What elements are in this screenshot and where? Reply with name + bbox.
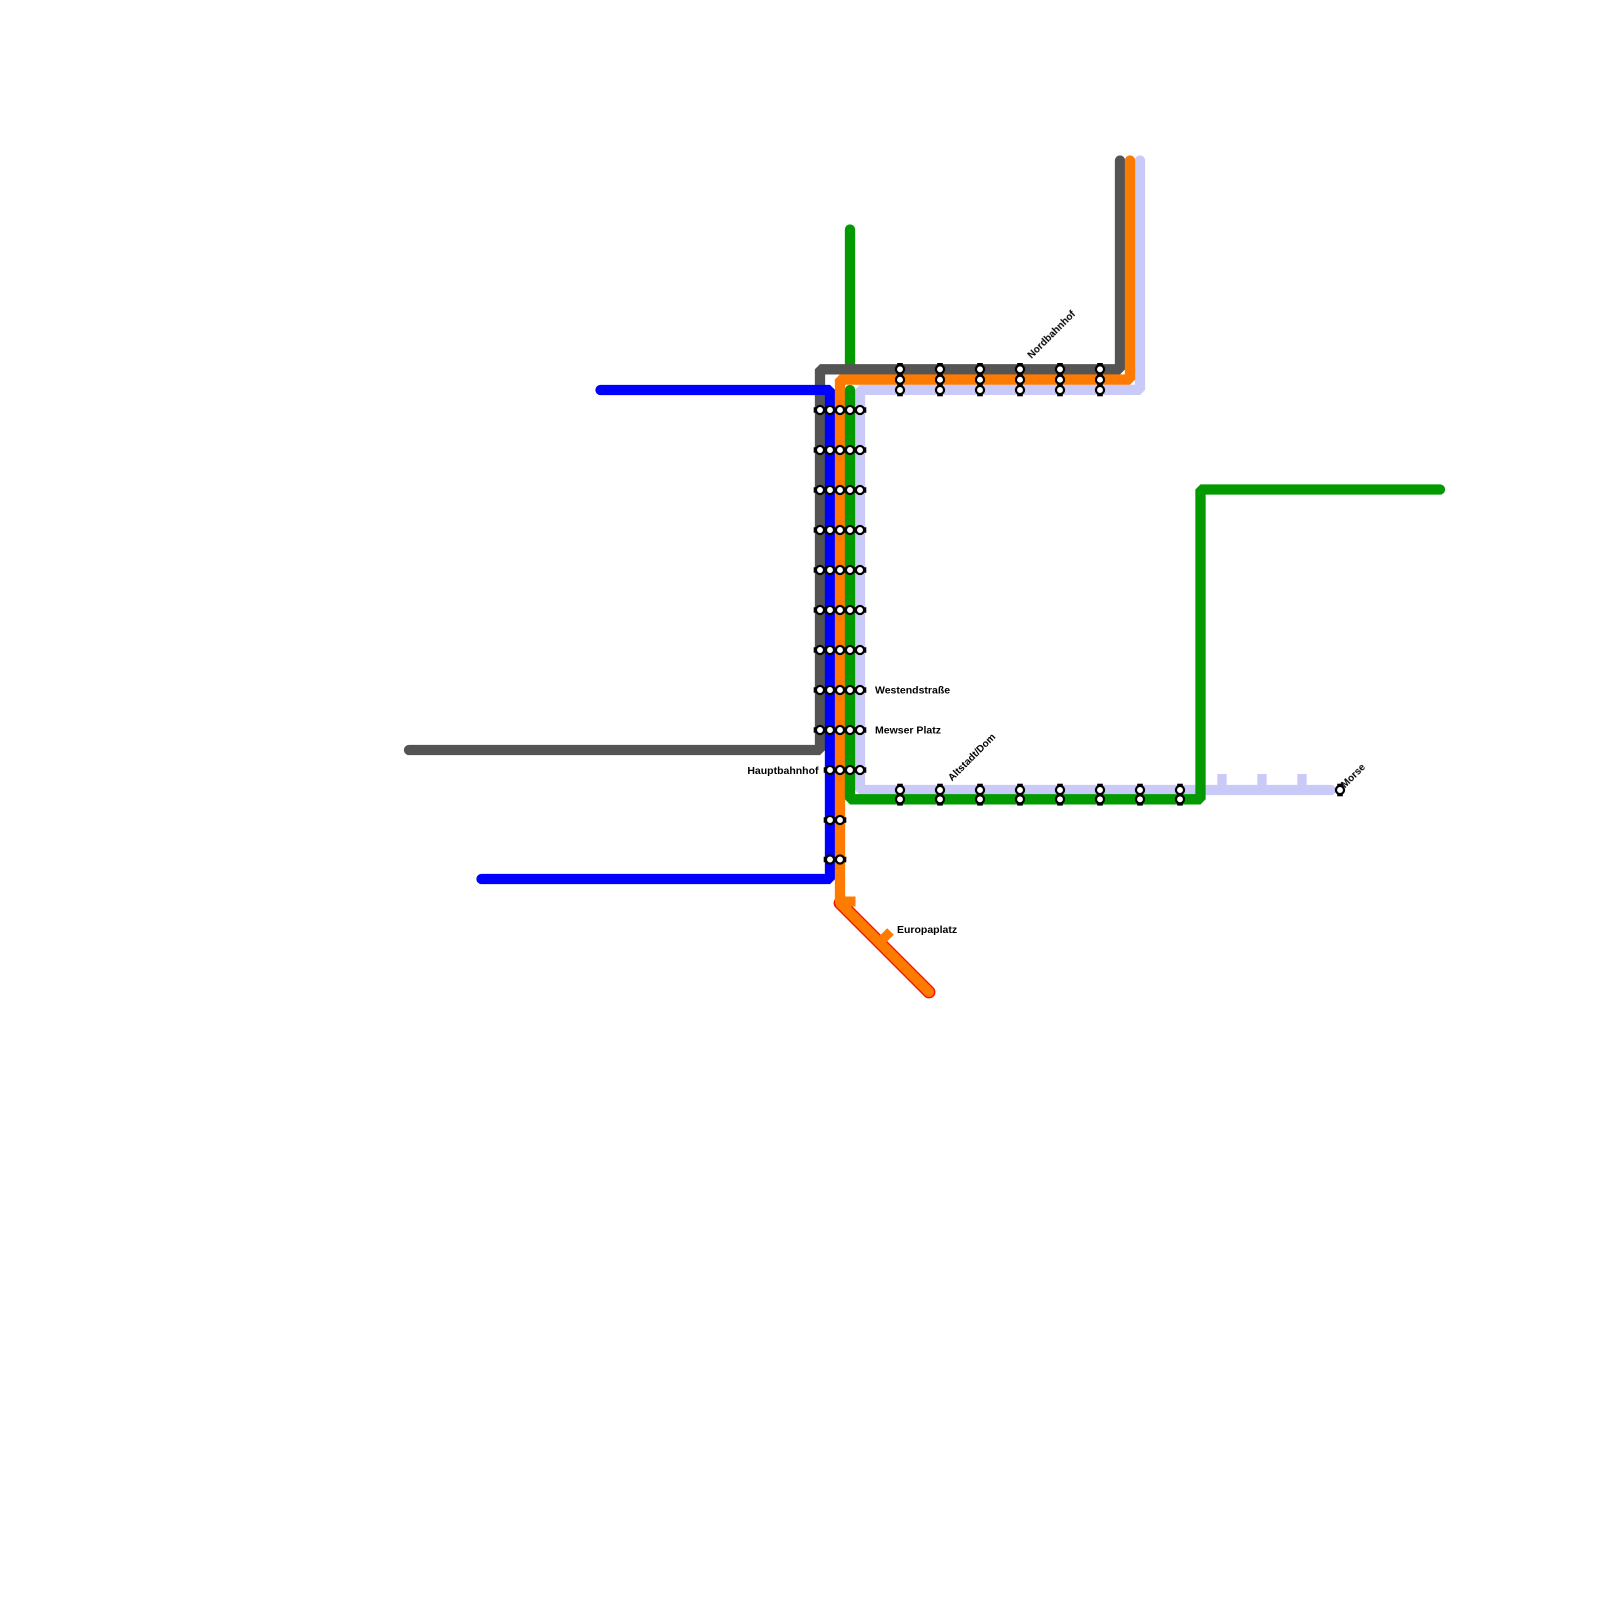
station tick at orange corner xyxy=(842,897,856,907)
station marker south 2 xyxy=(824,855,847,863)
station marker Morse terminal xyxy=(1336,784,1344,797)
gray line (Nordbahnhof branch, city trunk, west branch) xyxy=(409,161,1120,751)
station marker Hauptbahnhof xyxy=(824,766,867,774)
station tick lavender 2 xyxy=(1257,774,1266,789)
station marker north row 4 xyxy=(1016,363,1024,396)
station marker east row 1 xyxy=(896,784,904,806)
svg-text:Altstadt/Dom: Altstadt/Dom xyxy=(946,732,998,784)
svg-text:Hauptbahnhof: Hauptbahnhof xyxy=(747,765,819,777)
station marker trunk row 6 xyxy=(814,606,867,614)
station marker east row 6 xyxy=(1096,784,1104,806)
station marker north row 6 xyxy=(1096,363,1104,396)
station tick Europaplatz xyxy=(880,932,891,943)
station marker east row 8 xyxy=(1176,784,1184,806)
orange line (north branch - trunk - Europaplatz diagonal) xyxy=(840,161,1130,993)
label Altstadt/Dom xyxy=(946,732,998,784)
station marker north row 5 xyxy=(1056,363,1064,396)
station marker south 1 xyxy=(824,816,847,824)
svg-text:Nordbahnhof: Nordbahnhof xyxy=(1026,308,1079,361)
station marker east row 2 xyxy=(936,784,944,806)
station marker north row 3 xyxy=(976,363,984,396)
label Nordbahnhof xyxy=(1026,308,1079,361)
station marker trunk row 3 xyxy=(814,486,867,494)
label Hauptbahnhof xyxy=(747,765,819,777)
station marker trunk row 1 xyxy=(814,406,867,414)
station tick lavender 3 xyxy=(1297,774,1306,789)
station marker trunk row 7 xyxy=(814,646,867,654)
label Morse xyxy=(1339,762,1368,791)
green line segment (north stub into junction) xyxy=(845,230,855,369)
label Europaplatz xyxy=(897,924,957,936)
station marker trunk row 5 xyxy=(814,566,867,574)
red casing under orange diagonal xyxy=(840,903,929,992)
station marker north row 2 xyxy=(936,363,944,396)
green line (trunk - east - north - east branch) xyxy=(850,390,1440,799)
station marker east row 7 xyxy=(1136,784,1144,806)
lavender line (north branch - trunk - east to Morse) xyxy=(860,161,1331,791)
station marker north row 1 xyxy=(896,363,904,396)
station marker east row 3 xyxy=(976,784,984,806)
svg-text:Westendstraße: Westendstraße xyxy=(875,685,950,697)
station marker trunk row 4 xyxy=(814,526,867,534)
blue line (west - trunk - southwest) xyxy=(482,390,831,879)
svg-text:Europaplatz: Europaplatz xyxy=(897,924,957,936)
station marker trunk row 2 xyxy=(814,446,867,454)
svg-text:Mewser Platz: Mewser Platz xyxy=(875,725,941,737)
station marker trunk row 9 xyxy=(814,726,867,734)
station tick lavender 1 xyxy=(1217,774,1226,789)
station marker trunk row 8 xyxy=(814,686,867,694)
label Westendstrasse xyxy=(875,685,950,697)
label Mewser Platz xyxy=(875,725,941,737)
station marker east row 4 xyxy=(1016,784,1024,806)
station marker east row 5 xyxy=(1056,784,1064,806)
svg-text:Morse: Morse xyxy=(1339,762,1368,791)
